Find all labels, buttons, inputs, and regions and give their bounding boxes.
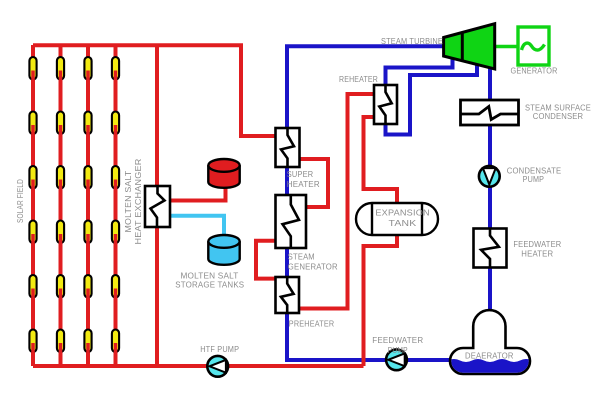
wire: blue hot reheat from reheater bottom back to turbine second stage (386, 60, 478, 135)
solar collector row 6 column 1 (29, 330, 36, 355)
heat exchanger: molten salt heat exchanger box (145, 186, 170, 227)
solar collector row 4 column 3 (84, 221, 91, 246)
solar collector row 4 column 2 (57, 221, 64, 246)
svg-text:GENERATOR: GENERATOR (288, 261, 338, 271)
deaerator vessel (448, 310, 532, 376)
svg-text:SUPER: SUPER (287, 169, 314, 179)
wire: blue turbine exhaust down through condenser, condensate pump, feedwater heater to deaerator (488, 64, 492, 312)
wire: blue feedwater line from deaerator through feedwater pump up through preheater/steam generator/superheater to steam turbine inlet (287, 46, 452, 360)
solar collector row 5 column 1 (29, 275, 36, 300)
solar collector row 1 column 3 (84, 57, 91, 82)
wire: red from super heater to steam generator (300, 159, 329, 207)
wire: red riser through molten salt heat exchanger (155, 45, 159, 366)
solar collector row 5 column 2 (57, 275, 64, 300)
solar collector row 2 column 2 (57, 112, 64, 137)
svg-text:FEEDWATER: FEEDWATER (513, 239, 561, 249)
heat exchanger: preheater box (276, 277, 300, 313)
svg-text:SOLAR FIELD: SOLAR FIELD (15, 179, 25, 223)
wire: blue cold reheat from turbine down to reheater top (386, 56, 453, 100)
solar collector row 6 column 3 (84, 330, 91, 355)
wire: green shaft line from turbine to generator (494, 45, 519, 49)
solar collector row 4 column 4 (112, 221, 119, 246)
solar collector row 3 column 4 (112, 166, 119, 191)
svg-text:TANK: TANK (389, 218, 417, 228)
generator box with sine wave (518, 27, 549, 65)
svg-text:MOLTEN SALT: MOLTEN SALT (123, 171, 133, 233)
svg-text:REHEATER: REHEATER (339, 74, 378, 84)
pump: feedwater pump (386, 349, 407, 370)
solar collector row 6 column 4 (112, 330, 119, 355)
svg-text:STORAGE TANKS: STORAGE TANKS (175, 280, 244, 290)
label: MOLTEN SALT HEAT EXCHANGER (rotated, two lines) (123, 159, 143, 245)
wire: red from steam generator to preheater (256, 241, 277, 279)
solar collector row 2 column 4 (112, 112, 119, 137)
svg-text:EXPANSION: EXPANSION (375, 207, 430, 217)
solar collector row 1 column 2 (57, 57, 64, 82)
svg-text:GENERATOR: GENERATOR (511, 66, 558, 76)
wire: solar field column 4 (114, 45, 118, 366)
wire: solar field column 2 (59, 45, 63, 366)
pump: condensate pump (479, 166, 500, 187)
svg-text:CONDENSER: CONDENSER (533, 111, 584, 121)
solar collector row 4 column 1 (29, 221, 36, 246)
heat exchanger: reheater box (374, 85, 397, 124)
wire: red from preheater up to reheater (299, 94, 374, 309)
heat exchanger: steam generator box (276, 195, 307, 248)
solar collector row 1 column 4 (112, 57, 119, 82)
svg-text:FEEDWATER: FEEDWATER (372, 335, 423, 345)
wire: red from expansion tank down to HTF return line (364, 219, 398, 366)
svg-text:PUMP: PUMP (388, 345, 408, 355)
solar collector row 5 column 4 (112, 275, 119, 300)
svg-text:PUMP: PUMP (523, 174, 545, 184)
solar collector row 2 column 1 (29, 112, 36, 137)
solar collector row 1 column 1 (29, 57, 36, 82)
svg-text:HTF PUMP: HTF PUMP (200, 344, 239, 354)
svg-text:HEATER: HEATER (287, 179, 320, 189)
solar collector row 3 column 3 (84, 166, 91, 191)
wire: red HTF bottom return line through HTF pump (33, 364, 364, 368)
solar collector row 2 column 3 (84, 112, 91, 137)
svg-text:STEAM: STEAM (288, 252, 315, 262)
wire: red hot molten salt from heat exchanger to hot storage tank (170, 172, 226, 201)
solar collector row 3 column 2 (57, 166, 64, 191)
wire: red HTF hot supply from solar field top header to super heater (33, 45, 277, 136)
heat exchanger: super heater box (276, 128, 300, 167)
svg-text:HEAT EXCHANGER: HEAT EXCHANGER (133, 159, 143, 245)
steam surface condenser box (461, 100, 519, 125)
steam turbine (green trapezoid) (444, 24, 495, 69)
solar collector row 3 column 1 (29, 166, 36, 191)
expansion tank (horizontal vessel) (356, 203, 438, 235)
svg-text:PREHEATER: PREHEATER (289, 319, 335, 329)
svg-text:DEAERATOR: DEAERATOR (465, 351, 514, 361)
cold molten salt storage tank (cyan cylinder) (208, 235, 239, 265)
solar collector row 5 column 3 (84, 275, 91, 300)
wire: solar field column 3 (86, 45, 90, 366)
pump: HTF pump (207, 356, 228, 377)
svg-text:HEATER: HEATER (521, 249, 553, 259)
heat exchanger: feedwater heater box (474, 229, 507, 268)
wire: solar field column 1 (31, 45, 35, 366)
wire: cyan cold molten salt from heat exchanger to cold storage tank (170, 216, 224, 245)
hot molten salt storage tank (red cylinder) (208, 159, 239, 188)
solar collector row 6 column 2 (57, 330, 64, 355)
wire: red from reheater down to expansion tank (364, 117, 398, 219)
svg-text:STEAM TURBINE: STEAM TURBINE (381, 36, 443, 46)
